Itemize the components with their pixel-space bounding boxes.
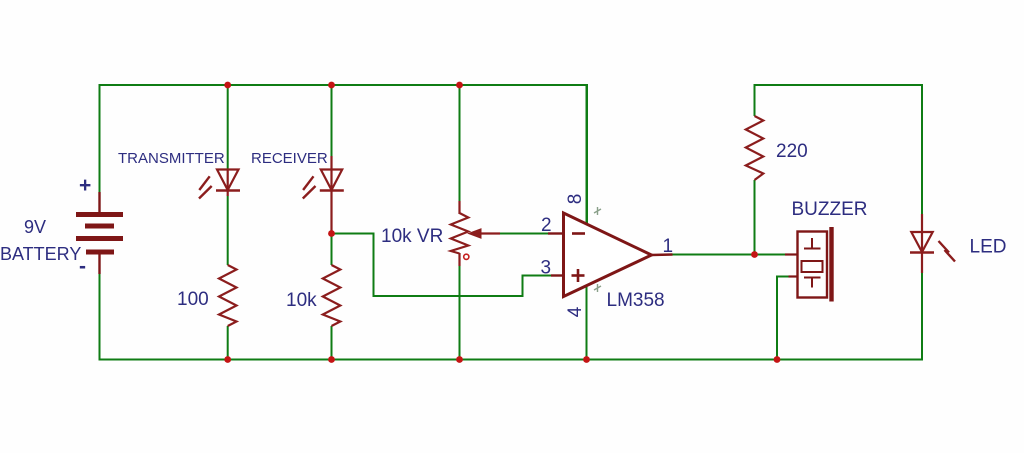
label 9V [24,217,46,237]
label battery minus [79,255,86,278]
svg-text:4: 4 [565,306,586,317]
wire pin 8 [586,85,588,224]
resistor R2 10k [323,265,341,326]
svg-text:10k: 10k [286,290,317,311]
node bottom rail pin4 [583,356,590,363]
svg-text:2: 2 [541,215,552,236]
node bottom rail pot [456,356,463,363]
svg-text:LED: LED [970,237,1007,258]
buzzer BZ1 [785,227,832,302]
svg-text:1: 1 [663,236,674,257]
label pin 1 [663,236,674,257]
node top rail pot [456,82,463,89]
diode transmitter LED [199,170,240,199]
svg-text:3: 3 [541,258,552,279]
diode receiver LED [303,156,344,234]
wire pin 4 [586,286,588,360]
battery BT1 [76,192,123,274]
wire receiver node to pin 3 [332,234,554,297]
wire bottom rail [100,273,923,360]
label BATTERY [0,244,81,264]
op-amp U1 [548,213,673,297]
label battery plus [79,174,91,197]
svg-text:220: 220 [776,141,808,162]
node bottom rail transmitter [224,356,231,363]
label LED [970,237,1007,258]
label BUZZER [792,199,868,220]
wire 220 to node [754,180,756,255]
diode LED D3 [910,214,955,273]
label 10k VR [381,226,443,247]
node top rail receiver [328,82,335,89]
wire receiver column [331,85,333,360]
wire top rail left segment [100,85,588,224]
label LM358 [607,290,665,311]
svg-text:TRANSMITTER: TRANSMITTER [118,150,225,167]
node bottom rail receiver [328,356,335,363]
svg-text:8: 8 [565,194,586,205]
label pin 8 [565,194,586,205]
svg-text:10k VR: 10k VR [381,226,443,247]
label TRANSMITTER [118,150,225,167]
svg-text:100: 100 [177,289,209,310]
label 220 [776,141,808,162]
label 10k [286,290,317,311]
label 100 [177,289,209,310]
svg-text:+: + [79,174,91,197]
node top rail transmitter [224,82,231,89]
label pin 4 [565,306,586,317]
potentiometer VR1 10k [451,201,500,266]
label pin 3 [541,258,552,279]
wire transmitter column [227,85,229,360]
node receiver junction [328,230,335,237]
svg-text:9V: 9V [24,217,46,237]
wire wiper to pin 2 [497,233,549,235]
wire output to buzzer node [673,254,787,256]
node output junction [751,251,758,258]
node bottom rail buzzer [774,356,781,363]
wire buzzer bottom pin [777,277,798,360]
svg-text:BATTERY: BATTERY [0,244,81,264]
wire top rail right segment [755,85,923,214]
op-amp power mark bottom [594,284,601,292]
resistor R1 100 [219,265,237,326]
op-amp power mark top [594,207,601,215]
label pin 2 [541,215,552,236]
label RECEIVER [251,150,328,167]
svg-text:RECEIVER: RECEIVER [251,150,328,167]
resistor R3 220 [746,116,764,180]
svg-text:LM358: LM358 [607,290,665,311]
wire potentiometer column [459,85,461,360]
svg-text:BUZZER: BUZZER [792,199,868,220]
